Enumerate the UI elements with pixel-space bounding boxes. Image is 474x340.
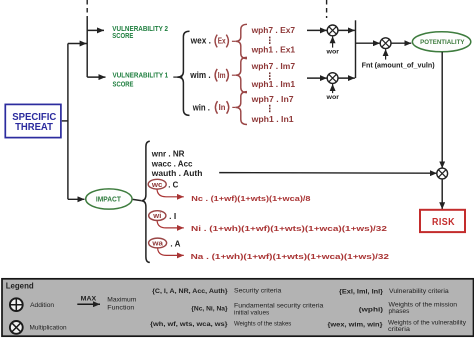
- wire collector to multiplier fnt: [356, 42, 381, 44]
- wire arrow into multiplier wor1: [307, 29, 327, 31]
- dots Im: [269, 72, 271, 74]
- dots Ex: [269, 37, 271, 39]
- svg-text:{wh, wf, wts, wca, ws}: {wh, wf, wts, wca, ws}: [150, 321, 228, 328]
- svg-text:wc: wc: [151, 182, 163, 189]
- svg-text:{C, I, A, NR, Acc, Auth}: {C, I, A, NR, Acc, Auth}: [152, 288, 228, 295]
- paren Im: [215, 69, 228, 82]
- svg-text:wph1 . In1: wph1 . In1: [251, 114, 294, 124]
- wire arrow wi to Ni: [157, 221, 184, 228]
- svg-text:wa: wa: [151, 241, 163, 248]
- oval wc: [148, 179, 166, 189]
- legend box: [2, 279, 474, 336]
- svg-text:wim .: wim .: [189, 70, 210, 80]
- svg-text:criteria: criteria: [388, 326, 411, 333]
- wire collector vertical: [355, 20, 357, 78]
- svg-text:RISK: RISK: [432, 216, 455, 228]
- svg-text:wauth . Auth: wauth . Auth: [151, 168, 203, 178]
- svg-text:wph1 . Im1: wph1 . Im1: [251, 79, 296, 89]
- paren In: [215, 101, 228, 114]
- wire arrow wor2 up: [332, 84, 334, 93]
- svg-text:Maximum: Maximum: [107, 297, 136, 304]
- box RISK: [420, 210, 465, 232]
- wire multiplier risk down: [441, 179, 443, 209]
- svg-text:MAX: MAX: [81, 295, 97, 302]
- wire dashed continuation top-right: [326, 0, 328, 18]
- svg-text:Ex: Ex: [218, 36, 226, 46]
- label VULNERABILITY 2 SCORE: [112, 24, 168, 40]
- svg-text:wph1 . Ex1: wph1 . Ex1: [251, 45, 296, 55]
- wire arrow to vulnerability 1 score: [87, 76, 105, 78]
- svg-text:Im: Im: [218, 70, 226, 80]
- brace Im group: [235, 57, 247, 92]
- multiplier wor2: [327, 73, 338, 84]
- svg-text:phases: phases: [389, 308, 410, 315]
- label weights vulnerability criteria: [388, 320, 467, 333]
- wire In tick: [232, 106, 235, 108]
- svg-text:initial values: initial values: [234, 309, 269, 316]
- wire long line to risk multiplier: [219, 172, 437, 175]
- svg-text:{Exl, Iml, Inl}: {Exl, Iml, Inl}: [339, 289, 383, 296]
- dots In: [269, 105, 271, 107]
- wire dash vulnerability1 to brace: [173, 76, 182, 78]
- brace In group: [235, 92, 247, 125]
- wire arrow wor1 up: [332, 36, 334, 47]
- svg-text:IMPACT: IMPACT: [96, 197, 122, 204]
- svg-text:Legend: Legend: [6, 280, 34, 290]
- svg-text:wor: wor: [325, 48, 339, 55]
- wire multiplier wor2 out: [338, 77, 355, 79]
- label VULNERABILITY 1 SCORE: [113, 71, 169, 89]
- svg-text:(wphi): (wphi): [359, 307, 383, 314]
- paren Ex: [215, 35, 228, 48]
- svg-text:Fnt (amount_of_vuln): Fnt (amount_of_vuln): [362, 60, 436, 69]
- wire Im tick: [232, 74, 235, 76]
- svg-text:In: In: [219, 102, 226, 112]
- wire arrow wc to Nc: [157, 189, 184, 197]
- svg-text:wor: wor: [325, 94, 339, 101]
- wire impact to brace: [133, 199, 141, 200]
- svg-text:Addition: Addition: [30, 302, 55, 309]
- wire max arrow: [77, 303, 100, 305]
- wire arrow wa to Na: [158, 248, 184, 255]
- label weights mission phases: [389, 302, 458, 316]
- box SPECIFIC THREAT: [5, 104, 61, 137]
- svg-text:wi: wi: [152, 213, 161, 220]
- svg-text:{wex, wim, win}: {wex, wim, win}: [328, 321, 383, 328]
- wire arrow fnt up: [385, 49, 387, 60]
- wire Ex tick: [232, 40, 235, 42]
- wire arrow trunk top to score branch: [68, 43, 87, 45]
- multiplier fnt: [380, 38, 391, 49]
- oval wa: [149, 238, 167, 248]
- svg-text:. I: . I: [169, 212, 176, 221]
- oval wi: [149, 211, 166, 221]
- svg-text:wnr . NR: wnr . NR: [151, 149, 185, 159]
- svg-text:Ni . (1+wh)(1+wf)(1+wts)(1+wca: Ni . (1+wh)(1+wf)(1+wts)(1+wca)(1+ws)/32: [191, 224, 387, 233]
- wire dashed continuation top-left: [86, 0, 88, 17]
- svg-text:Na . (1+wh)(1+wf)(1+wts)(1+wca: Na . (1+wh)(1+wf)(1+wts)(1+wca)(1+ws)/32: [191, 252, 389, 261]
- wire arrow to vulnerability 2 score: [87, 29, 104, 31]
- brace impact list: [141, 141, 150, 262]
- wire arrow into multiplier wor2: [307, 77, 327, 79]
- svg-text:. C: . C: [168, 181, 178, 190]
- svg-text:Vulnerability criteria: Vulnerability criteria: [389, 288, 449, 295]
- svg-text:wph7 . In7: wph7 . In7: [251, 94, 294, 104]
- svg-text:POTENTIALITY: POTENTIALITY: [420, 39, 465, 46]
- svg-text:wph7 . Im7: wph7 . Im7: [251, 61, 296, 71]
- svg-text:. A: . A: [170, 239, 180, 248]
- svg-text:Security criteria: Security criteria: [234, 288, 282, 295]
- svg-text:Function: Function: [107, 305, 135, 312]
- brace Ex group: [235, 24, 247, 58]
- svg-text:Weights of the stakes: Weights of the stakes: [234, 321, 291, 328]
- svg-text:SCORE: SCORE: [113, 79, 134, 88]
- wire trunk vertical: [67, 44, 69, 200]
- multiplier risk: [437, 168, 448, 179]
- brace vulnerability list: [177, 31, 189, 115]
- wire potentiality down: [441, 52, 443, 168]
- svg-text:win .: win .: [192, 103, 210, 113]
- svg-text:THREAT: THREAT: [15, 121, 53, 133]
- svg-text:wex .: wex .: [190, 35, 211, 45]
- wire multiplier fnt to potentiality: [391, 42, 411, 44]
- wire score branch vertical: [86, 17, 88, 77]
- svg-text:SCORE: SCORE: [112, 31, 133, 40]
- label fundamental criteria: [234, 303, 324, 317]
- wire box to trunk: [62, 120, 68, 122]
- svg-text:Nc . (1+wf)(1+wts)(1+wca)/8: Nc . (1+wf)(1+wts)(1+wca)/8: [191, 194, 310, 203]
- svg-text:{Nc, Ni, Na}: {Nc, Ni, Na}: [191, 306, 228, 313]
- ellipse POTENTIALITY: [412, 32, 470, 52]
- multiplier wor1: [327, 25, 338, 36]
- symbol multiplication: [10, 321, 23, 334]
- wire arrow trunk to impact: [68, 198, 85, 200]
- symbol addition: [10, 298, 23, 311]
- svg-text:Multiplication: Multiplication: [30, 324, 68, 331]
- svg-text:wph7 . Ex7: wph7 . Ex7: [251, 25, 296, 35]
- wire multiplier wor1 out: [338, 29, 355, 31]
- label Maximum Function: [107, 297, 136, 312]
